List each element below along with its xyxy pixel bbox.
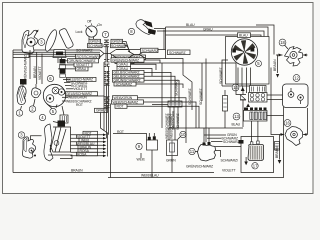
connector at right of battery box — [275, 142, 280, 151]
pilot connector box under headlamp — [60, 106, 68, 123]
svg-text:ROT: ROT — [117, 105, 124, 109]
wire connector A to tail lamp — [267, 88, 291, 95]
bottom-left wires with arrows — [71, 134, 107, 158]
wire battery feeds — [251, 121, 253, 142]
svg-text:SCHWARZ: SCHWARZ — [199, 89, 203, 105]
svg-text:On: On — [98, 23, 103, 27]
rear brake switch 18 — [276, 47, 308, 67]
wires below connector mid — [170, 107, 178, 128]
label ROT/SCHWARZ boxed — [76, 54, 101, 59]
wire headlamp to labels — [58, 61, 104, 101]
svg-text:SCHWARZ: SCHWARZ — [176, 114, 180, 130]
svg-text:GRAU: GRAU — [203, 27, 213, 31]
circled 2 — [29, 99, 35, 112]
ignition switch 7 — [76, 20, 103, 37]
cable trapezoid left — [100, 50, 116, 58]
wire BRAUN right vertical with label — [277, 55, 279, 74]
connector block A pins — [250, 86, 267, 93]
svg-text:GRÜN/SCHWARZ: GRÜN/SCHWARZ — [186, 165, 213, 169]
wire top horizontal y50 — [13, 49, 100, 51]
svg-text:SCHWARZ: SCHWARZ — [188, 89, 192, 105]
wire long y58.5 trunk — [146, 59, 192, 111]
svg-text:BLAU: BLAU — [186, 23, 195, 27]
svg-text:BRAUN: BRAUN — [275, 146, 279, 158]
label GRUEN/SCHWARZ boxed mid — [112, 55, 146, 60]
wire magneto box right to switch16 — [271, 68, 277, 135]
wire fuse down — [171, 156, 173, 173]
horn 1 — [17, 79, 27, 105]
battery box — [241, 137, 274, 173]
trunk vertical below labels — [104, 47, 111, 178]
tail lamp 12 — [283, 84, 309, 108]
svg-text:17: 17 — [253, 163, 258, 168]
svg-text:WEIß/BLAU: WEIß/BLAU — [141, 174, 159, 178]
wire connector B right — [267, 115, 284, 117]
svg-text:BLAU: BLAU — [232, 123, 241, 127]
labels rotated below connector — [167, 110, 180, 130]
circled 5 at magneto — [256, 61, 262, 67]
brake lever switch 8 — [136, 20, 166, 35]
wire from label SCHWARZ up-right — [163, 30, 165, 50]
dip switch 2 — [31, 84, 40, 98]
wire y63 to diode 14 — [236, 63, 240, 95]
wire from switch3 down — [13, 54, 29, 58]
3-pin connector mid — [168, 101, 182, 107]
wire trunk up to BLAU — [165, 27, 167, 59]
flywheel magneto 5 — [231, 39, 257, 65]
circled 13 — [233, 113, 240, 120]
wire right verticals to coil area — [201, 63, 203, 101]
wire BRAUN right lower vertical — [279, 135, 281, 160]
wires from ignition right labels to bundle — [123, 41, 130, 51]
circled 3 top-left — [38, 39, 45, 46]
ground arrow right lower — [278, 160, 282, 164]
wire y49.5 right of trap — [116, 49, 128, 51]
wire to dip2 — [36, 52, 38, 84]
wire outer corner right-top — [256, 25, 274, 55]
wire BLAU13 horizontal — [169, 127, 243, 129]
speedometer lamp assembly — [44, 121, 72, 162]
svg-text:VIOLETT: VIOLETT — [222, 169, 236, 173]
connector pair marks center — [104, 60, 110, 108]
wires coil to label stack — [204, 134, 226, 136]
wire coil HT to battery box — [216, 146, 242, 148]
arrow up below A — [246, 103, 250, 107]
lever assembly (brake lever with switch 4) — [43, 28, 74, 63]
svg-text:GRAU: GRAU — [96, 109, 106, 113]
label GRUEN, SCHWARZ, SCHWARZ stack right — [222, 133, 240, 144]
svg-text:SCHWARZ/: SCHWARZ/ — [221, 158, 238, 162]
circled 3 lower — [18, 132, 24, 138]
circled 6 — [47, 75, 53, 81]
diode symbol 14 — [240, 91, 246, 127]
circled 16 — [284, 120, 291, 127]
circled 4 — [39, 114, 45, 120]
battery 17 — [248, 141, 264, 161]
wire violett down — [41, 54, 43, 85]
ignition area boxed labels GRUEN/SCHWARZ pairs — [88, 39, 128, 48]
fuse 10 — [167, 140, 178, 156]
wire ignition to labels — [88, 37, 90, 39]
svg-text:ROT: ROT — [76, 103, 83, 107]
label VIOLETT boxed mid — [115, 59, 134, 63]
right label column — [111, 58, 144, 109]
wire y50 continuation to trunk — [116, 49, 166, 51]
svg-text:SCHWARZ: SCHWARZ — [76, 48, 92, 52]
svg-text:10: 10 — [181, 132, 186, 137]
bottom-left label stack — [77, 131, 98, 156]
svg-text:11: 11 — [190, 149, 195, 154]
headlamp 4/5 — [43, 84, 65, 108]
svg-text:SCHWARZ: SCHWARZ — [142, 49, 158, 53]
wires above connector mid — [171, 80, 179, 101]
ignition coil 11 — [198, 142, 219, 161]
svg-text:GRÜN/SCHWARZ: GRÜN/SCHWARZ — [24, 55, 28, 82]
connector block B body — [244, 111, 268, 122]
circled 10 — [178, 131, 187, 139]
svg-text:16: 16 — [285, 121, 290, 126]
wire lower feeds into bundle — [29, 55, 100, 57]
connector block A sockets — [249, 93, 268, 103]
stop lamp switch 16 — [277, 108, 308, 146]
circled 5 headlamp — [50, 108, 56, 114]
svg-text:SCHWARZ: SCHWARZ — [111, 44, 127, 48]
wire y86 bus under magneto — [222, 85, 250, 87]
wire magneto left lead — [222, 60, 228, 86]
flasher switch 9 — [147, 133, 158, 150]
wire GRAU top — [157, 31, 264, 37]
switch 3 (turn signal switch) body — [22, 30, 39, 54]
svg-text:VIOLETT: VIOLETT — [38, 66, 42, 80]
wires fanning right from right column — [127, 60, 199, 143]
wire to horn1 — [29, 50, 31, 79]
wire bottom BRAUN bus — [13, 172, 214, 174]
magneto enclosure box — [226, 37, 270, 85]
wire trunk stub bottom-left labels — [107, 133, 109, 157]
connector block B pin row — [244, 108, 267, 111]
svg-text:SCHWARZ: SCHWARZ — [223, 140, 239, 144]
circled 17 below battery — [252, 163, 258, 169]
wire fuse up — [168, 128, 170, 140]
circled 9 — [136, 143, 142, 149]
ground arrow right top — [276, 74, 279, 78]
bundle block at battery box corner — [239, 140, 244, 144]
turn switch 3 lower — [22, 137, 36, 158]
svg-text:WEIß: WEIß — [137, 158, 145, 162]
svg-text:12: 12 — [294, 76, 299, 81]
wire long y63 trunk — [131, 62, 236, 64]
svg-text:Off: Off — [87, 20, 91, 24]
svg-text:VIOLETT: VIOLETT — [74, 87, 88, 91]
svg-text:13: 13 — [234, 114, 239, 119]
circled 11 — [189, 148, 198, 154]
arrow up at 14 — [241, 87, 245, 91]
wire lever to bus — [13, 51, 100, 53]
circled 14 — [232, 84, 239, 91]
wire bottom WEISS/BLAU bus — [108, 107, 284, 178]
wire switch9 down — [151, 150, 153, 178]
svg-text:18: 18 — [280, 40, 285, 45]
svg-text:BRAUN: BRAUN — [71, 169, 83, 173]
outer border frame — [3, 3, 314, 194]
vertical connector right of coil wires — [223, 90, 228, 128]
wire magneto leads down — [237, 68, 239, 87]
wire battery minus — [245, 157, 247, 162]
svg-text:SCHWARZ: SCHWARZ — [88, 44, 104, 48]
label SCHWARZ boxed top mid — [168, 50, 191, 55]
wire third top line — [166, 35, 262, 37]
svg-text:BRAUN: BRAUN — [273, 59, 277, 71]
circled 8 — [128, 28, 134, 34]
connector pair marks ignition — [104, 40, 109, 47]
circled 1 — [16, 106, 22, 116]
wire vertical x162 — [161, 63, 163, 128]
svg-text:GRAU: GRAU — [77, 67, 87, 71]
left label column — [66, 59, 108, 133]
connector strip 6 (black pins) — [60, 59, 66, 78]
wire BLAU top — [166, 27, 269, 37]
wire ROT to switch9 — [113, 134, 147, 141]
svg-text:WEIß/SCHW: WEIß/SCHW — [172, 110, 176, 130]
circled 7 — [102, 31, 108, 37]
ground arrow at battery — [244, 162, 248, 166]
circled 12 — [293, 75, 300, 82]
svg-text:Lock: Lock — [76, 30, 83, 34]
cable trapezoid right — [128, 51, 146, 59]
svg-text:SCHWARZ: SCHWARZ — [169, 51, 185, 55]
wire connector mid left — [152, 104, 168, 106]
svg-text:SCHWARZ: SCHWARZ — [116, 82, 132, 86]
label BLAU at magneto — [238, 33, 251, 38]
svg-text:BLAU: BLAU — [239, 34, 248, 38]
label SCHWARZ boxed left of it — [141, 48, 159, 53]
circled 18 — [279, 39, 288, 49]
wire left frame vertical — [12, 50, 14, 173]
wire switch3 lower up — [31, 136, 42, 140]
wire coil up leads — [203, 128, 205, 143]
wire 14 arrow stem — [242, 86, 244, 91]
svg-text:GRÜN: GRÜN — [166, 159, 176, 163]
